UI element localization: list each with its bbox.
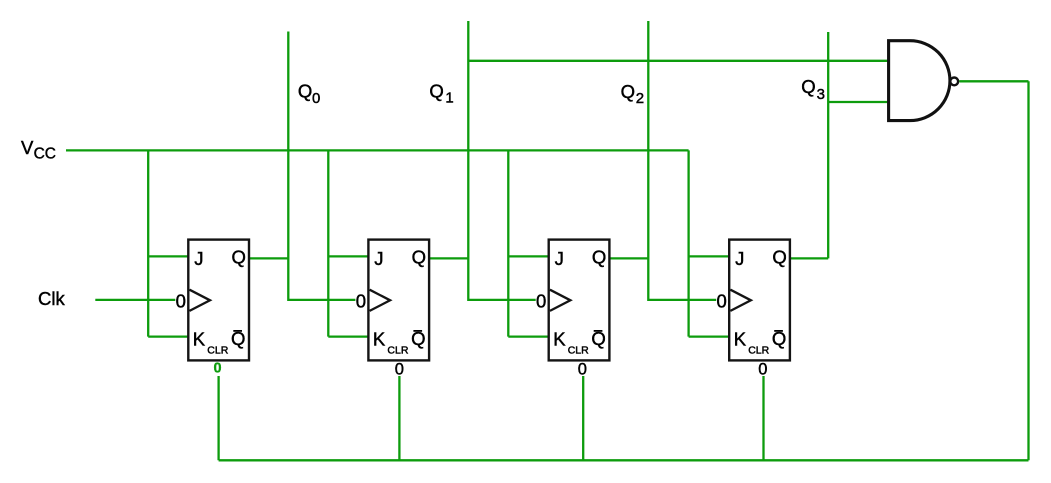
node Q1 vertical and wire to FF3 clock (468, 21, 535, 300)
svg-text:Q: Q (592, 247, 606, 268)
svg-text:Q: Q (621, 81, 635, 102)
wire FF3 Q output to node Q2 (609, 257, 648, 259)
svg-text:0: 0 (758, 361, 767, 379)
flip-flop U3 clock triangle (550, 290, 571, 311)
nand gate U5 body (889, 41, 950, 121)
svg-text:Q: Q (412, 247, 426, 268)
wire NAND top input from node Q1 (468, 60, 888, 62)
svg-text:1: 1 (445, 90, 453, 107)
svg-text:0: 0 (356, 290, 366, 311)
wire right side vertical from NAND output to clear bus (1027, 81, 1029, 460)
wire VCC rail (66, 149, 689, 151)
wire bottom clear bus (219, 459, 1029, 461)
wire FF1 CLR drop (217, 376, 219, 460)
wire FF4 J/K feed from VCC (689, 150, 730, 336)
wire FF2 CLR drop (398, 376, 400, 460)
nand gate U5 output bubble (950, 78, 958, 86)
svg-text:0: 0 (176, 290, 186, 311)
svg-text:K: K (193, 329, 206, 350)
wire FF1 Q output to node Q0 (249, 257, 288, 259)
svg-text:K: K (373, 329, 386, 350)
svg-text:0: 0 (717, 290, 727, 311)
svg-text:Q: Q (429, 81, 443, 102)
svg-text:K: K (734, 329, 747, 350)
svg-text:CLR: CLR (387, 345, 408, 357)
flip-flop U2 box (368, 240, 429, 361)
node Q0 vertical and wire to FF2 clock (288, 32, 355, 300)
flip-flop U1 clock triangle (190, 290, 211, 311)
wire Clk input (95, 299, 175, 301)
svg-text:J: J (735, 248, 744, 269)
svg-text:CLR: CLR (207, 345, 228, 357)
flip-flop U4 box (729, 240, 790, 361)
svg-text:CLR: CLR (568, 345, 589, 357)
wire FF2 J/K feed from VCC (328, 150, 368, 336)
flip-flop U1 box (188, 240, 249, 361)
flip-flop U4 clock triangle (730, 290, 751, 311)
wire FF4 Q output to node Q3 (790, 257, 828, 259)
svg-text:Q: Q (772, 247, 786, 268)
wire FF1 J/K feed from VCC (148, 150, 188, 336)
svg-text:0: 0 (395, 361, 404, 379)
wire FF4 CLR drop (762, 376, 764, 460)
wire FF3 CLR drop (582, 376, 584, 460)
node Q2 vertical and wire to FF4 clock (648, 21, 716, 300)
svg-text:0: 0 (536, 290, 546, 311)
svg-text:Q: Q (232, 247, 246, 268)
svg-text:0: 0 (312, 90, 320, 107)
svg-text:K: K (553, 329, 566, 350)
wire NAND output (959, 80, 1028, 82)
svg-text:J: J (555, 248, 564, 269)
svg-text:0: 0 (214, 360, 222, 376)
svg-text:Q: Q (298, 80, 312, 101)
node Q3 vertical (827, 32, 829, 258)
svg-text:J: J (194, 248, 203, 269)
flip-flop U3 box (549, 240, 610, 361)
svg-text:CC: CC (34, 146, 56, 163)
wire NAND bottom input from node Q3 (828, 101, 888, 103)
svg-text:Q: Q (801, 76, 815, 97)
svg-text:0: 0 (578, 361, 587, 379)
svg-text:3: 3 (817, 86, 825, 103)
svg-text:Clk: Clk (38, 288, 65, 309)
flip-flop U2 clock triangle (370, 290, 391, 311)
wire FF2 Q output to node Q1 (429, 257, 468, 259)
svg-text:CLR: CLR (748, 345, 769, 357)
svg-text:V: V (21, 137, 34, 158)
svg-text:2: 2 (636, 90, 644, 107)
svg-text:J: J (374, 248, 383, 269)
wire FF3 J/K feed from VCC (508, 150, 548, 336)
